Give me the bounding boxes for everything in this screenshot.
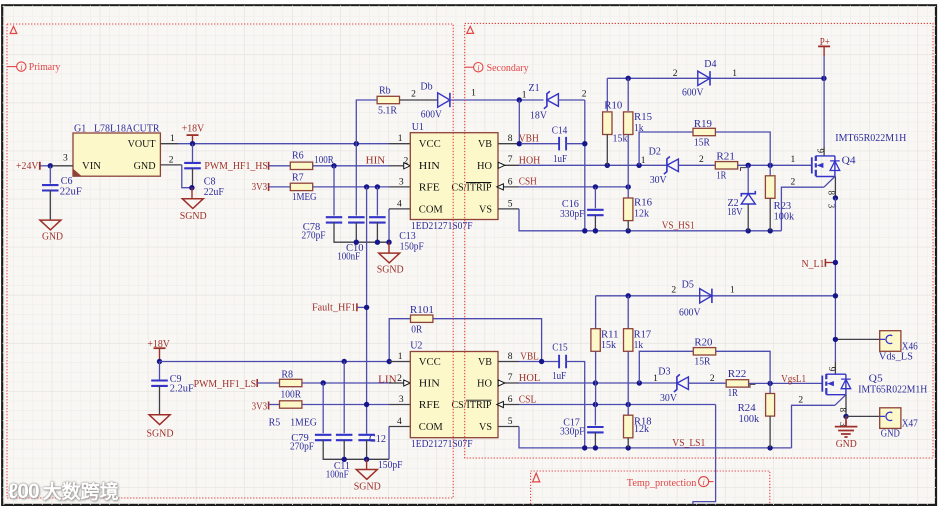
capacitor C11 <box>326 435 353 481</box>
svg-text:SGND: SGND <box>354 482 381 493</box>
Q4 source pin <box>827 177 837 209</box>
wire C8 top <box>192 144 194 164</box>
node N_L1 junction <box>833 260 838 265</box>
svg-text:VS: VS <box>479 204 492 215</box>
svg-text:8: 8 <box>508 352 513 362</box>
zener D2 <box>649 147 704 187</box>
G1 pin name VOUT <box>128 139 156 150</box>
wire R24 top <box>769 383 771 393</box>
svg-text:C6: C6 <box>61 176 73 187</box>
Q5 kelvin pin number <box>798 395 803 405</box>
svg-text:COM: COM <box>419 204 443 215</box>
svg-text:U1: U1 <box>412 122 424 133</box>
U2 pin 1 stub <box>389 352 410 362</box>
svg-text:1R: 1R <box>716 170 726 181</box>
node D2/R19 junction <box>636 156 645 168</box>
wire R17 to R18 <box>627 351 629 416</box>
svg-text:+18V: +18V <box>182 123 205 134</box>
wire R18 bottom <box>627 438 629 448</box>
net label HOL <box>519 373 541 384</box>
node C16/CS junction <box>593 184 598 189</box>
capacitor C14 <box>552 125 568 165</box>
node R18/VS_LS1 junction <box>626 445 631 450</box>
svg-text:HIN: HIN <box>419 379 440 390</box>
svg-text:R15: R15 <box>634 112 652 123</box>
resistor R20 <box>693 337 715 367</box>
node R23/VS junction <box>768 228 773 233</box>
svg-text:5: 5 <box>508 199 513 209</box>
svg-text:Q5: Q5 <box>869 374 883 385</box>
svg-text:R24: R24 <box>738 403 756 414</box>
net label 3V3 (top) <box>252 182 269 193</box>
svg-text:VBH: VBH <box>519 134 539 145</box>
wire R5 to RFE <box>302 404 389 406</box>
node Z1col/VS junction <box>582 228 587 233</box>
Q4 gate pin number <box>791 155 796 165</box>
svg-text:2: 2 <box>673 69 678 79</box>
U1 pin name VCC <box>419 139 441 150</box>
svg-text:4: 4 <box>397 199 402 209</box>
svg-text:CS/ITRIP: CS/ITRIP <box>452 182 492 193</box>
svg-text:1uF: 1uF <box>553 154 567 165</box>
svg-text:VgsL1: VgsL1 <box>781 374 806 385</box>
wire GND pin to C8 <box>182 165 192 188</box>
Temp corner triangle <box>533 473 540 482</box>
pin mark (R22 out) <box>750 384 756 388</box>
svg-text:L78L18ACUTR: L78L18ACUTR <box>94 123 160 134</box>
label Primary <box>7 62 60 73</box>
wire CSL to temp protection <box>693 405 716 505</box>
U2 pin 6 stub <box>497 395 519 408</box>
U2 pin 3 stub <box>389 395 410 405</box>
svg-text:R11: R11 <box>601 329 619 340</box>
svg-text:3: 3 <box>399 395 404 405</box>
svg-text:HO: HO <box>477 161 492 172</box>
svg-text:8: 8 <box>508 134 513 144</box>
svg-text:R16: R16 <box>634 198 652 209</box>
node R11col/CSL junction <box>593 402 598 407</box>
svg-text:7: 7 <box>508 155 513 165</box>
wire C14 to column <box>566 143 585 145</box>
wire Z2 bottom <box>747 204 749 231</box>
wire C6 branch <box>49 166 51 184</box>
wire R7 to RFE <box>313 186 389 188</box>
net label Fault_HF1 <box>312 302 367 313</box>
svg-text:VS_LS1: VS_LS1 <box>672 438 705 449</box>
ground SGND (C8) <box>180 188 207 222</box>
node VBH junction <box>517 141 522 146</box>
G1 pin 2 stub <box>160 155 181 165</box>
U1 pin 4 stub <box>389 199 410 209</box>
svg-text:2: 2 <box>798 395 803 405</box>
ground GND (C6) <box>40 220 63 242</box>
wire C11 column <box>343 362 345 434</box>
svg-text:22uF: 22uF <box>204 187 224 198</box>
Primary region border <box>7 24 453 498</box>
U2 pin 4 stub <box>389 417 410 427</box>
svg-text:330pF: 330pF <box>560 427 585 438</box>
resistor R10 <box>603 100 628 144</box>
wire CS row <box>519 186 628 188</box>
node R11/HOL junction <box>593 380 598 385</box>
svg-text:1: 1 <box>791 155 796 165</box>
Q4 kelvin pin number <box>791 177 796 187</box>
svg-text:D3: D3 <box>658 366 670 377</box>
svg-text:22uF: 22uF <box>60 187 82 198</box>
svg-text:1: 1 <box>730 286 735 296</box>
wire C12 column <box>366 433 368 435</box>
node C17/VS_LS1 junction <box>593 445 598 450</box>
wire R22 to gate <box>748 382 822 384</box>
wire R10 column top <box>606 78 608 111</box>
svg-text:Primary: Primary <box>29 62 61 73</box>
svg-text:1: 1 <box>398 352 403 362</box>
net label HIN <box>366 155 386 166</box>
node SGND rail junction <box>386 240 391 245</box>
svg-text:VOUT: VOUT <box>128 139 156 150</box>
net label VS_HS1 <box>662 220 695 231</box>
wire C10 to rail <box>355 222 357 242</box>
wire 3V3 to R5 <box>269 404 280 406</box>
net label LIN <box>378 375 397 386</box>
wire C13 to rail <box>376 222 378 242</box>
zener D3 <box>658 366 715 404</box>
svg-text:IMT65R022M1H: IMT65R022M1H <box>835 133 906 144</box>
svg-text:600V: 600V <box>679 308 701 319</box>
resistor R24 <box>738 394 775 426</box>
U2 pin 2 stub <box>389 374 410 386</box>
node D3/R20 junction <box>637 374 659 386</box>
svg-text:C14: C14 <box>552 125 568 136</box>
U2 pin name HIN <box>419 379 440 390</box>
svg-text:GND: GND <box>881 429 900 440</box>
svg-text:6: 6 <box>508 395 513 405</box>
node R17/D5 junction <box>626 293 631 298</box>
wire C16 bottom <box>594 215 596 231</box>
svg-text:2.2uF: 2.2uF <box>170 383 194 394</box>
svg-text:VBL: VBL <box>520 351 539 362</box>
wire C11 to rail <box>343 440 345 460</box>
node C12/rail junction <box>364 457 369 462</box>
ground SGND (U2 COM) <box>354 459 381 492</box>
svg-text:8: 8 <box>827 191 837 196</box>
U1 pin name COM <box>419 204 443 215</box>
svg-text:9: 9 <box>816 149 826 154</box>
wire Rb to Db <box>400 89 438 100</box>
U2 pin name VCC <box>419 357 441 368</box>
node R10/HO junction <box>605 163 610 168</box>
svg-text:600V: 600V <box>421 110 443 121</box>
svg-text:VB: VB <box>478 139 492 150</box>
wire Q5 kelvin <box>792 405 835 448</box>
svg-text:G1: G1 <box>74 123 86 134</box>
pin mark (Z2 pin) <box>741 168 747 171</box>
svg-text:1: 1 <box>641 156 646 166</box>
svg-text:3V3: 3V3 <box>252 182 268 193</box>
svg-text:600V: 600V <box>682 88 704 99</box>
node C13/RFE junction <box>375 184 380 189</box>
node R8 out junction <box>321 380 326 385</box>
G1 pin 3 stub <box>52 153 73 166</box>
wire D4 row <box>607 77 824 79</box>
ground GND (Q5 source) <box>835 416 858 450</box>
svg-text:2: 2 <box>397 374 402 384</box>
node Z2 junction <box>746 163 751 168</box>
wire VBL row <box>519 361 560 363</box>
connector X47 <box>880 408 918 440</box>
node +18V/C9 junction <box>157 359 162 364</box>
net label VBH <box>519 134 539 145</box>
svg-text:R7: R7 <box>292 173 304 184</box>
svg-text:150pF: 150pF <box>400 242 424 253</box>
wire HOL row <box>519 382 677 384</box>
net label PWM_HF1_LS <box>194 379 258 390</box>
resistor R8 <box>280 370 302 401</box>
ground SGND (C9) <box>147 415 174 440</box>
wire to X47 <box>846 415 880 417</box>
wire C79 column <box>322 383 324 433</box>
svg-text:GND: GND <box>134 161 156 172</box>
node R15/D4 junction <box>626 76 631 81</box>
wire R17 column top <box>627 296 629 329</box>
wire C17 bottom <box>594 432 596 448</box>
svg-text:VIN: VIN <box>82 161 101 172</box>
wire R101 right <box>433 319 542 362</box>
resistor R17 <box>624 329 652 352</box>
capacitor C9 <box>151 374 194 394</box>
U2 pin name COM <box>419 422 443 433</box>
wire C16 top <box>594 187 596 208</box>
svg-text:VCC: VCC <box>419 357 441 368</box>
svg-text:D4: D4 <box>704 59 716 70</box>
node X46 junction <box>833 337 838 342</box>
wire VOUT row <box>178 143 389 145</box>
U2 pin name VB <box>478 357 492 368</box>
svg-text:1: 1 <box>471 89 476 99</box>
wire R101 left <box>389 319 410 362</box>
capacitor C13 <box>369 217 424 252</box>
zener Z2 <box>727 191 755 218</box>
wire R20 left <box>639 351 693 383</box>
svg-text:X47: X47 <box>902 419 918 430</box>
resistor R16 <box>624 198 653 221</box>
svg-text:R21: R21 <box>716 152 735 163</box>
svg-text:Fault_HF1: Fault_HF1 <box>312 302 356 313</box>
svg-text:100R: 100R <box>281 390 302 401</box>
svg-text:1k: 1k <box>634 340 644 351</box>
svg-text:1R: 1R <box>728 388 738 399</box>
svg-text:VS_HS1: VS_HS1 <box>662 220 695 231</box>
capacitor C15 <box>552 343 568 383</box>
power port +24V <box>16 161 40 172</box>
U1 pin 2 stub <box>389 156 410 169</box>
node C10/rail junction <box>354 240 359 245</box>
svg-text:1ED21271S07F: 1ED21271S07F <box>411 439 473 450</box>
node VgsL1 junction <box>767 381 772 386</box>
net label CSL <box>519 394 537 405</box>
svg-text:3V3: 3V3 <box>252 402 268 413</box>
wire C8 bottom <box>192 168 194 188</box>
svg-text:R23: R23 <box>774 201 792 212</box>
svg-text:30V: 30V <box>660 393 678 404</box>
node C13/rail junction <box>375 240 380 245</box>
svg-text:HIN: HIN <box>419 161 440 172</box>
svg-text:100nF: 100nF <box>337 251 360 262</box>
Secondary corner triangle <box>467 26 474 33</box>
Primary corner triangle <box>10 26 17 33</box>
node P+/D4 junction <box>821 76 826 81</box>
svg-text:COM: COM <box>419 422 443 433</box>
capacitor C16 <box>560 199 604 220</box>
wire PWM_HF1_LS to R8 <box>257 382 279 384</box>
wire Db to Z1 <box>450 89 544 101</box>
net label HOH <box>519 155 541 166</box>
wire R23 bottom <box>769 198 771 231</box>
node R19/R23 junction <box>768 163 773 168</box>
wire HO row <box>519 164 667 166</box>
svg-text:Db: Db <box>420 82 432 93</box>
wire C17 top <box>594 405 596 426</box>
wire PWM_HF1_HS to R6 <box>269 165 291 167</box>
wire C15 right <box>566 362 585 448</box>
capacitor C78 <box>302 217 343 241</box>
label Secondary <box>465 62 529 73</box>
wire D2 to R21 <box>678 164 715 166</box>
svg-text:R8: R8 <box>281 370 293 381</box>
wire R8 to LIN <box>302 382 389 384</box>
wire D5 row <box>596 295 836 297</box>
diode D5 <box>671 280 735 319</box>
capacitor C10 <box>337 217 364 262</box>
capacitor C17 <box>560 417 604 437</box>
wire Rb feed <box>356 100 377 144</box>
svg-text:1: 1 <box>170 134 175 144</box>
IC U1 1ED21271S07F body <box>410 122 498 232</box>
resistor R101 <box>410 305 434 336</box>
net label VgsL1 <box>781 374 806 385</box>
resistor R18 <box>624 415 652 438</box>
wire R10 column bottom <box>606 135 608 166</box>
U1 pin name CS/ITRIP <box>452 182 492 193</box>
resistor R21 <box>715 152 737 182</box>
svg-text:RFE: RFE <box>419 400 440 411</box>
wire C79 to rail <box>323 440 389 460</box>
svg-text:R5: R5 <box>269 418 281 429</box>
resistor Rb <box>377 86 399 117</box>
svg-text:Q4: Q4 <box>842 156 856 167</box>
wire VS to VS_HS1 row <box>519 209 781 231</box>
svg-text:150pF: 150pF <box>378 460 403 471</box>
svg-text:+24V: +24V <box>16 161 39 172</box>
svg-text:D2: D2 <box>649 147 661 158</box>
svg-text:6: 6 <box>508 177 513 187</box>
wire Q4 drain <box>816 78 826 156</box>
node R16/VS junction <box>626 228 631 233</box>
power port P+ <box>818 37 830 56</box>
svg-text:Secondary: Secondary <box>487 63 529 74</box>
node C16/VS junction <box>593 228 598 233</box>
U1 pin name HO <box>477 161 492 172</box>
svg-text:7: 7 <box>508 373 513 383</box>
resistor R5 <box>269 401 317 429</box>
capacitor C8 <box>184 163 224 198</box>
net label CSH <box>519 177 537 188</box>
svg-text:1: 1 <box>522 91 527 101</box>
U1 pin name HIN <box>419 161 440 172</box>
U1 pin 1 stub <box>389 134 410 144</box>
wire U2 COM to rail <box>388 427 390 460</box>
svg-text:4: 4 <box>397 417 402 427</box>
svg-text:30V: 30V <box>650 175 668 186</box>
wire VS_LS1 row <box>519 427 792 448</box>
net label VS_LS1 <box>672 438 705 449</box>
U2 pin name RFE <box>419 400 440 411</box>
svg-text:5: 5 <box>508 417 513 427</box>
svg-text:D5: D5 <box>682 280 694 291</box>
capacitor C79 <box>290 433 331 452</box>
resistor R7 <box>290 173 316 203</box>
svg-text:VS: VS <box>479 422 492 433</box>
wire Z1 to corner <box>558 99 584 101</box>
wire COM to rail <box>388 209 390 242</box>
Q5 drain pin number <box>827 367 837 372</box>
wire Z1 column down <box>584 100 586 231</box>
G1 pin name VIN <box>82 161 101 172</box>
svg-text:PWM_HF1_LS: PWM_HF1_LS <box>194 379 257 390</box>
wire R16 bottom <box>627 221 629 231</box>
wire U2 VCC row <box>160 361 390 363</box>
svg-text:18V: 18V <box>727 207 743 218</box>
power port N_L1 <box>802 259 836 270</box>
svg-text:12k: 12k <box>634 424 649 435</box>
wire R15 column top <box>627 78 629 111</box>
resistor R6 <box>290 150 334 169</box>
svg-text:100k: 100k <box>774 212 795 223</box>
node VBL junction <box>539 359 544 364</box>
U1 pin 3 stub <box>389 177 410 187</box>
svg-text:SGND: SGND <box>377 265 404 276</box>
svg-text:270pF: 270pF <box>302 230 326 241</box>
svg-text:SGND: SGND <box>180 211 207 222</box>
svg-text:2: 2 <box>404 156 409 166</box>
Temp_protection region border <box>531 471 770 504</box>
Q5 source pin <box>838 395 848 427</box>
wire +24V to VIN <box>41 165 53 167</box>
wire C13 column <box>376 187 378 216</box>
node Rb/C10 junction <box>354 141 359 146</box>
wire C6 to GND <box>49 190 51 220</box>
svg-text:VB: VB <box>478 357 492 368</box>
node +18V junction <box>190 141 195 146</box>
wire R11 column top <box>595 296 597 329</box>
wire D3 to R22 <box>688 382 726 384</box>
node R6 out junction <box>331 163 336 168</box>
wire C78 to rail <box>334 222 389 242</box>
svg-text:R10: R10 <box>604 100 622 111</box>
svg-text:270pF: 270pF <box>290 441 314 452</box>
wire R24 bottom <box>769 416 771 448</box>
svg-text:CS/ITRIP: CS/ITRIP <box>452 400 492 411</box>
svg-text:1MEG: 1MEG <box>290 418 317 429</box>
wire P+ rail <box>823 56 825 78</box>
node Db/Z1 junction <box>517 97 522 102</box>
wire C9 bottom <box>159 386 161 415</box>
wire R11 column bottom <box>595 351 597 404</box>
node +24V/C6 junction <box>48 163 53 168</box>
svg-text:C15: C15 <box>552 343 568 354</box>
svg-text:1MEG: 1MEG <box>292 192 317 203</box>
node C11/VCC junction <box>342 359 347 364</box>
